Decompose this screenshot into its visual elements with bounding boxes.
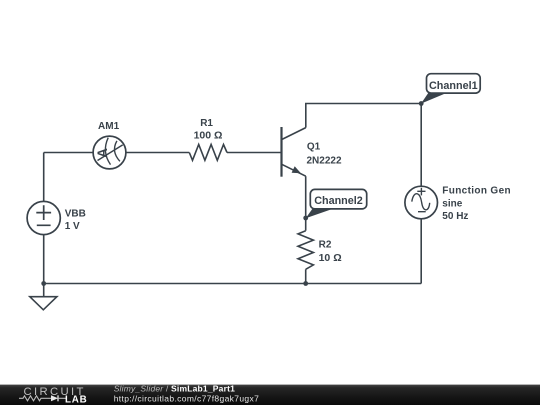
resistor R2 [298,231,342,270]
junction: R2 bottom rail dot [303,281,308,286]
junction: Channel1 node dot [419,101,424,106]
svg-text:Slimy_Slider / SimLab1_Part1: Slimy_Slider / SimLab1_Part1 [114,383,235,393]
node Channel2 [306,189,367,218]
svg-text:Channel2: Channel2 [314,195,363,207]
function generator V1 [405,186,511,223]
voltage source VBB [27,201,86,234]
svg-text:AM1: AM1 [98,121,120,132]
svg-text:2N2222: 2N2222 [307,155,342,166]
junction: Channel2 / emitter-R2 dot [303,216,308,221]
svg-text:VBB: VBB [65,208,86,219]
node Channel1 [421,74,480,104]
wire: top-left horizontal to AM1/R1 [44,152,190,154]
wire: emitter down to R2 [305,176,307,231]
svg-text:Q1: Q1 [307,141,321,152]
svg-text:sine: sine [442,199,462,210]
svg-text:LAB: LAB [65,394,88,405]
svg-text:10 Ω: 10 Ω [319,252,342,264]
logo: resistor squiggle and diode [19,396,51,401]
wire: function gen bottom to rail [420,219,422,284]
svg-text:http://circuitlab.com/c77f8gak: http://circuitlab.com/c77f8gak7ugx7 [114,393,260,403]
junction: ground rail dot [41,281,46,286]
wire: right vertical into function gen top [420,104,422,187]
svg-text:A: A [95,148,110,158]
svg-text:R1: R1 [200,118,213,129]
svg-text:R2: R2 [319,240,332,251]
svg-text:Function Gen: Function Gen [442,186,511,197]
transistor Q1 [282,127,342,177]
svg-text:50 Hz: 50 Hz [442,211,468,222]
wire: collector up and top rail to right [306,104,421,128]
wire: R2 bottom to rail [305,269,307,283]
wire: R1 to Q1 base [227,152,281,154]
wire: left vertical (VBB branch) [43,153,45,284]
svg-text:1 V: 1 V [65,221,80,232]
resistor R1 [189,118,227,160]
svg-text:Channel1: Channel1 [429,80,478,92]
ground [30,284,57,310]
ammeter AM1 [93,121,126,169]
svg-text:100 Ω: 100 Ω [194,130,223,142]
wire: bottom rail [44,283,422,285]
